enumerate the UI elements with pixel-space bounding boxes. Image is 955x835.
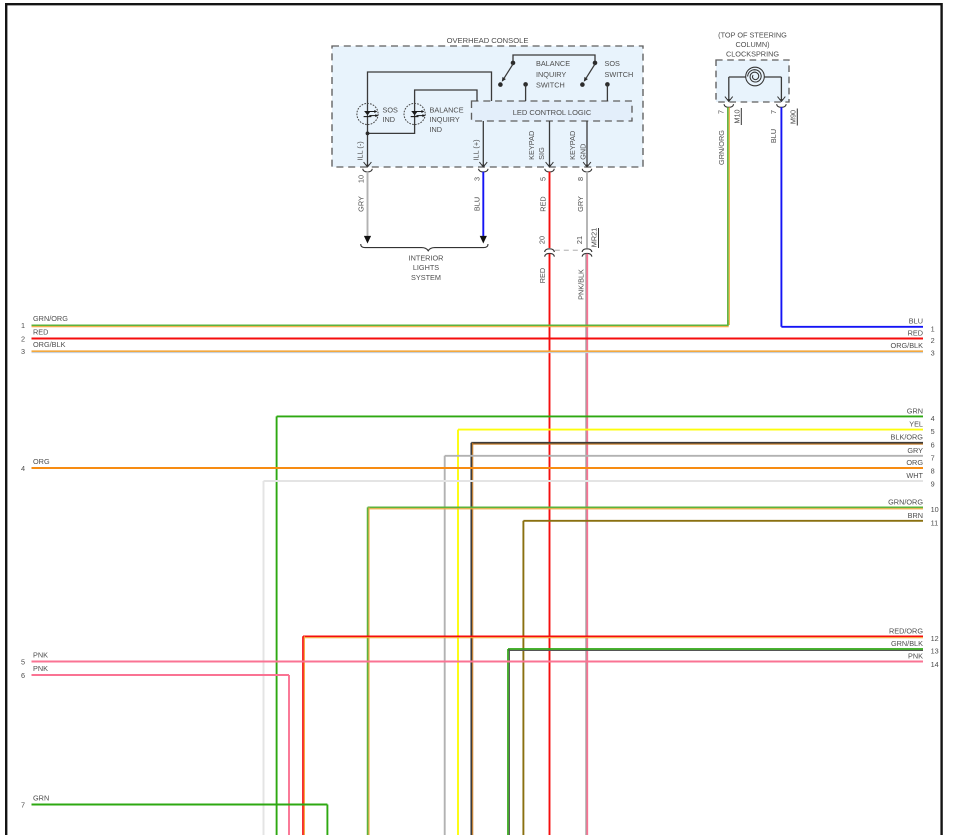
wire RED/ORG row12 (303, 635, 923, 637)
svg-text:PNK: PNK (908, 652, 923, 661)
svg-text:8: 8 (931, 467, 935, 476)
svg-text:BLU: BLU (909, 316, 923, 325)
svg-text:GRN/BLK: GRN/BLK (891, 639, 923, 648)
svg-text:M10: M10 (732, 109, 741, 123)
wire 3 ORG/BLK horizontal (32, 350, 924, 352)
svg-text:21: 21 (575, 236, 584, 244)
svg-text:BALANCE: BALANCE (536, 59, 570, 68)
svg-text:GRY: GRY (576, 196, 585, 212)
svg-text:BLK/ORG: BLK/ORG (891, 433, 924, 442)
brace interior lights (361, 244, 488, 251)
connector cup KEYPAD SIG (545, 169, 555, 172)
svg-text:4: 4 (931, 414, 935, 423)
svg-text:KEYPAD: KEYPAD (527, 131, 536, 160)
sos switch contact to LED logic (605, 82, 610, 87)
wire YEL row5 (458, 429, 923, 431)
svg-text:GRN/ORG: GRN/ORG (33, 314, 68, 323)
clockspring wire left pin (728, 77, 730, 100)
svg-text:PNK/BLK: PNK/BLK (577, 269, 586, 300)
overhead console box (dashed) (332, 46, 643, 167)
svg-text:7: 7 (21, 800, 25, 809)
svg-text:ORG: ORG (33, 457, 50, 466)
svg-text:ORG/BLK: ORG/BLK (891, 341, 924, 350)
svg-text:3: 3 (472, 177, 481, 181)
wire ILL(+) from LED logic down (482, 121, 484, 166)
clockspring box (dashed) (716, 60, 789, 102)
svg-text:10: 10 (357, 175, 366, 183)
svg-text:5: 5 (539, 177, 548, 181)
clockspring wire right pin (780, 77, 782, 100)
svg-text:1: 1 (931, 324, 935, 333)
LED control logic box U1 (dashed) (472, 101, 633, 121)
arrow clockspring right (778, 97, 786, 102)
sos switch SW2 (593, 61, 598, 66)
svg-text:BLU: BLU (769, 129, 778, 143)
arrow at console exit KEYPAD GND (583, 162, 591, 167)
wire ILL(-) through SOS LED down (367, 104, 369, 166)
svg-text:BRN: BRN (908, 511, 923, 520)
svg-text:SOS: SOS (605, 59, 621, 68)
svg-text:8: 8 (576, 177, 585, 181)
svg-text:3: 3 (21, 347, 25, 356)
svg-text:2: 2 (21, 334, 25, 343)
wire GRN/ORG clockspring drop (727, 107, 729, 325)
svg-text:20: 20 (537, 236, 546, 244)
connector cup ILL(+) (479, 169, 489, 172)
svg-text:RED: RED (539, 196, 548, 211)
dashed connector link (555, 249, 582, 251)
wire BLU row1 right (781, 326, 923, 328)
svg-text:RED/ORG: RED/ORG (889, 626, 923, 635)
wire 2 RED horizontal (32, 338, 924, 340)
junction dot ILL(-) (366, 132, 370, 136)
svg-text:7: 7 (769, 110, 778, 114)
wire WHT row9 (264, 480, 924, 482)
svg-text:GRN/ORG: GRN/ORG (888, 497, 923, 506)
svg-text:1: 1 (21, 321, 25, 330)
svg-text:PNK: PNK (33, 664, 48, 673)
svg-text:ORG: ORG (906, 458, 923, 467)
svg-text:RED: RED (908, 329, 923, 338)
corner join GRN/ORG (727, 320, 729, 325)
wire GRN/BLK row13 (508, 648, 923, 650)
wire BRN row11 (523, 520, 923, 522)
svg-text:ILL (+): ILL (+) (471, 139, 480, 160)
wire RED pin20 lower (549, 254, 551, 835)
wire BALANCE LED bottom to junction (368, 104, 415, 133)
svg-text:SOS: SOS (383, 105, 399, 114)
svg-text:4: 4 (21, 464, 25, 473)
LED SOS IND symbol (357, 103, 378, 124)
svg-text:INQUIRY: INQUIRY (430, 115, 460, 124)
wire GRN/ORG row10 (368, 506, 923, 508)
svg-text:6: 6 (931, 440, 935, 449)
svg-text:7: 7 (716, 110, 725, 114)
svg-text:LED CONTROL LOGIC: LED CONTROL LOGIC (513, 108, 592, 117)
svg-text:2: 2 (931, 336, 935, 345)
svg-text:WHT: WHT (906, 471, 923, 480)
wire switch common bus (513, 55, 595, 63)
svg-text:13: 13 (931, 647, 939, 656)
svg-text:12: 12 (931, 634, 939, 643)
svg-text:5: 5 (931, 427, 935, 436)
svg-text:GRN/ORG: GRN/ORG (717, 130, 726, 165)
wire 1 GRN/ORG horizontal (32, 324, 729, 326)
svg-text:5: 5 (21, 657, 25, 666)
arrow at console exit ILL(+) (479, 162, 487, 167)
svg-text:ORG/BLK: ORG/BLK (33, 340, 66, 349)
svg-text:7: 7 (931, 453, 935, 462)
svg-text:PNK: PNK (33, 650, 48, 659)
svg-text:IND: IND (430, 125, 443, 134)
arrow GRY (364, 236, 371, 244)
wire BLU pin3 (482, 172, 484, 236)
svg-text:GRY: GRY (907, 446, 923, 455)
arrow at console exit ILL(-) (364, 162, 372, 167)
wire KEYPAD GND from LED logic down (586, 121, 588, 166)
svg-text:(TOP OF STEERING: (TOP OF STEERING (718, 30, 787, 39)
svg-text:GRN: GRN (33, 793, 49, 802)
svg-text:CLOCKSPRING: CLOCKSPRING (726, 49, 779, 58)
svg-text:YEL: YEL (909, 420, 923, 429)
LED BALANCE INQUIRY IND symbol (404, 103, 425, 124)
balance switch contact to LED logic (523, 82, 528, 87)
connector cup clockspring right (777, 104, 787, 107)
wire SOS LED top to LED logic (368, 72, 492, 104)
wire BALANCE LED top to LED logic (415, 90, 477, 104)
svg-text:OVERHEAD CONSOLE: OVERHEAD CONSOLE (447, 36, 529, 45)
svg-text:SWITCH: SWITCH (605, 70, 634, 79)
wire BLU clockspring drop (780, 107, 782, 327)
svg-text:IND: IND (383, 115, 396, 124)
svg-text:MR21: MR21 (590, 228, 599, 247)
svg-text:GRY: GRY (357, 196, 366, 212)
wire 4 ORG horizontal (32, 467, 924, 469)
svg-text:INQUIRY: INQUIRY (536, 70, 566, 79)
svg-text:SIG: SIG (537, 147, 546, 160)
clockspring coil symbol (729, 76, 746, 78)
svg-text:BALANCE: BALANCE (430, 105, 464, 114)
wire GRY row7 (445, 455, 923, 457)
svg-text:14: 14 (931, 660, 939, 669)
wire BLK/ORG row6 (471, 442, 923, 444)
wire KEYPAD SIG from LED logic down (549, 121, 551, 166)
svg-text:RED: RED (538, 268, 547, 283)
connector cup clockspring left (724, 104, 734, 107)
svg-text:M90: M90 (788, 110, 797, 124)
wire 5 PNK horizontal (32, 661, 924, 663)
svg-text:KEYPAD: KEYPAD (568, 131, 577, 160)
wire 7 GRN (32, 804, 328, 806)
arrow clockspring left (725, 97, 733, 102)
inline connector halves on RED wire (545, 249, 555, 252)
svg-text:11: 11 (931, 518, 939, 527)
svg-text:INTERIOR: INTERIOR (409, 253, 444, 262)
svg-text:10: 10 (931, 505, 939, 514)
balance inquiry switch SW1 (511, 61, 516, 66)
arrow at console exit KEYPAD SIG (546, 162, 554, 167)
svg-text:GRN: GRN (907, 406, 923, 415)
wire GRY pin8 (586, 172, 588, 248)
svg-text:LIGHTS: LIGHTS (413, 263, 439, 272)
svg-text:SWITCH: SWITCH (536, 80, 565, 89)
wire GRY pin10 (367, 172, 369, 236)
wire PNK/BLK pin21 (586, 254, 588, 835)
svg-text:GND: GND (578, 144, 587, 160)
arrow BLU (480, 236, 487, 244)
svg-text:6: 6 (21, 671, 25, 680)
inline connector halves on PNK/BLK wire (582, 249, 592, 252)
svg-text:ILL (-): ILL (-) (355, 141, 364, 160)
svg-text:9: 9 (931, 480, 935, 489)
wire RED pin5 upper (549, 172, 551, 248)
connector cup ILL(-) (363, 169, 373, 172)
svg-text:BLU: BLU (472, 197, 481, 211)
svg-text:3: 3 (931, 349, 935, 358)
wire GRN row4 (277, 415, 923, 417)
connector cup KEYPAD GND (582, 169, 592, 172)
wire 6 PNK (32, 674, 290, 676)
svg-text:COLUMN): COLUMN) (735, 40, 769, 49)
svg-text:SYSTEM: SYSTEM (411, 273, 441, 282)
svg-text:RED: RED (33, 327, 48, 336)
